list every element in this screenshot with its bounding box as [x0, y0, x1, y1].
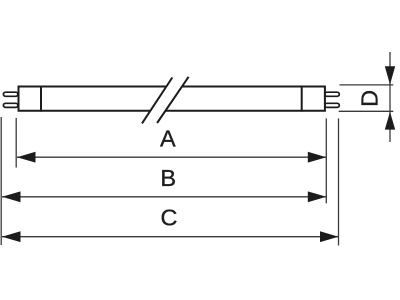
left cap divider: [40, 86, 42, 112]
left pin upper: [3, 92, 18, 96]
svg-text:C: C: [161, 204, 178, 230]
extension line A left: [15, 118, 17, 168]
dimension line C: [2, 236, 339, 238]
tube body left segment with left cap: [19, 87, 167, 111]
arrowhead B left: [2, 191, 21, 202]
svg-text:D: D: [357, 90, 383, 107]
extension line D top: [340, 84, 394, 86]
arrowhead C right: [320, 231, 339, 242]
right cap divider: [301, 86, 303, 112]
arrowhead C left: [2, 231, 21, 242]
arrowhead A right: [308, 152, 327, 163]
arrowhead D down: [385, 66, 395, 84]
svg-text:A: A: [160, 126, 176, 152]
dimension line B: [2, 196, 326, 198]
extension line right (A,B): [325, 118, 327, 203]
left pin lower: [3, 103, 18, 107]
dimension line A: [17, 156, 326, 158]
right pin lower: [325, 103, 340, 107]
extension line D bottom: [339, 110, 394, 112]
arrowhead B right: [308, 191, 327, 202]
arrowhead A left: [17, 152, 36, 163]
svg-text:B: B: [160, 165, 176, 191]
right pin upper: [325, 92, 340, 96]
extension line left (B,C): [0, 117, 2, 245]
extension line right (C): [338, 118, 340, 245]
arrowhead D up: [385, 112, 395, 130]
tube body right segment with right cap: [165, 87, 325, 111]
dimension line D vertical: [389, 52, 391, 142]
break slash right: [157, 77, 189, 123]
break slash left: [142, 78, 172, 124]
